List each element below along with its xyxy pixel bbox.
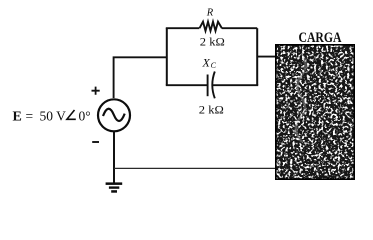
minus polarity mark — [92, 141, 99, 143]
plus polarity mark — [92, 87, 100, 95]
svg-text:2 kΩ: 2 kΩ — [200, 34, 225, 48]
svg-text:50 V: 50 V — [40, 108, 67, 123]
svg-text:2 kΩ: 2 kΩ — [199, 102, 224, 116]
wire: RC box to load — [257, 56, 275, 58]
wire: RC box bottom branch right lead — [212, 84, 258, 86]
ac source E circle — [98, 99, 130, 131]
node B: RC box right edge — [256, 28, 258, 85]
wire: bottom rail to load — [114, 167, 277, 169]
wire: feed from source top to RC box — [114, 57, 167, 98]
ac source sine wave — [103, 109, 125, 121]
capacitor XC left plate — [207, 75, 209, 97]
node A: RC box left edge — [166, 28, 168, 85]
wire: RC box bottom branch left lead — [166, 84, 208, 86]
svg-text:E: E — [13, 109, 22, 124]
svg-text:0°: 0° — [79, 108, 91, 123]
svg-text:R: R — [206, 7, 214, 18]
wire: RC box top branch right lead — [222, 27, 257, 29]
wire: source bottom to ground and rail junction — [113, 132, 115, 183]
svg-text:C: C — [211, 61, 217, 70]
resistor R — [200, 22, 222, 31]
svg-text:CARGA: CARGA — [299, 30, 343, 46]
svg-text:X: X — [202, 56, 211, 70]
wire: RC box top branch left lead — [166, 27, 200, 29]
capacitor XC right curved plate — [212, 72, 215, 99]
load block (hatched) — [275, 44, 355, 180]
ground — [106, 182, 123, 192]
svg-text:=: = — [26, 108, 34, 123]
